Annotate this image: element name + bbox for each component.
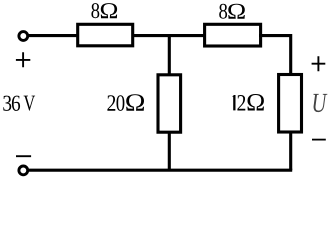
wire (20ohm resistor bottom lead to bottom rail) [168,132,171,170]
resistor R2 8ohm (top-right, horizontal box) [205,24,261,46]
wire (R1 to middle node and to R2) [133,34,206,37]
terminal (bottom-left, - terminal of 36V source) [19,166,28,175]
resistor R1 8ohm (top-left, horizontal box) [78,24,133,46]
value label 8ohm for R1 [91,3,117,18]
resistor R3 20ohm (middle, vertical box) [158,75,181,132]
resistor R4 12ohm (right, vertical box) [279,75,302,133]
terminal (top-left, + terminal of 36V source) [19,32,28,41]
label 36V (source value) [3,96,35,111]
label + (polarity of U, top) [312,56,326,71]
wire (top terminal to R1) [29,34,79,37]
label - (source negative) [16,155,31,157]
value label 8ohm for R2 [219,4,245,19]
wire (12ohm bottom lead down to bottom rail corner) [289,132,292,170]
label U (voltage across 12ohm) [313,94,327,112]
label + (source positive) [16,52,30,67]
value label 12ohm for R4 [233,94,264,111]
node (middle junction) wire down to 20ohm resistor [168,36,171,75]
wire (bottom rail from - terminal to right corner) [29,169,293,172]
wire (R2 right side, corner down to 12ohm resistor) [259,36,291,75]
label - (polarity of U, bottom) [312,139,326,141]
value label 20ohm for R3 [107,94,144,111]
